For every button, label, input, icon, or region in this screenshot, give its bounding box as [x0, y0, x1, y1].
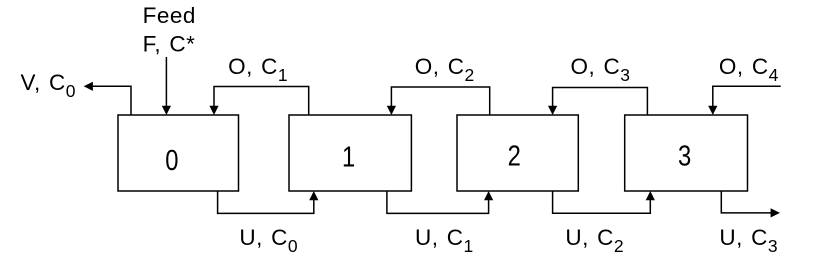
svg-text:1: 1 — [342, 140, 355, 173]
svg-text:2: 2 — [508, 139, 521, 172]
svg-text:F, C*: F, C* — [143, 32, 196, 57]
svg-text:0: 0 — [165, 144, 178, 177]
svg-text:Feed: Feed — [143, 3, 196, 28]
svg-text:3: 3 — [678, 139, 691, 172]
